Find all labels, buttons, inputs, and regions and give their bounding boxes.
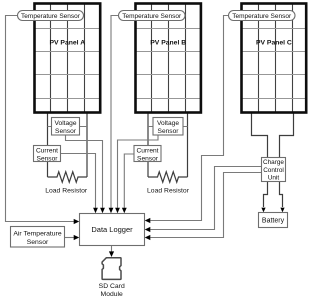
svg-text:Load Resistor: Load Resistor (147, 188, 190, 195)
svg-text:Control: Control (263, 167, 284, 174)
svg-text:Current: Current (36, 148, 58, 155)
svg-text:PV Panel C: PV Panel C (256, 39, 292, 46)
svg-text:Sensor: Sensor (158, 128, 180, 135)
svg-text:Data Logger: Data Logger (91, 225, 133, 234)
svg-text:Air Temperature: Air Temperature (13, 231, 61, 238)
svg-text:Battery: Battery (262, 218, 285, 225)
svg-text:Current: Current (137, 148, 159, 155)
svg-text:Sensor: Sensor (27, 239, 49, 246)
svg-text:SD Card: SD Card (99, 283, 125, 290)
svg-text:Temperature Sensor: Temperature Sensor (122, 13, 182, 20)
svg-text:Charge: Charge (263, 159, 284, 166)
svg-text:Voltage: Voltage (55, 120, 77, 127)
svg-text:Module: Module (101, 291, 124, 298)
svg-text:Temperature Sensor: Temperature Sensor (21, 13, 81, 20)
svg-text:Sensor: Sensor (55, 128, 77, 135)
svg-text:PV Panel B: PV Panel B (150, 39, 186, 46)
svg-text:Temperature Sensor: Temperature Sensor (232, 13, 292, 20)
svg-text:Sensor: Sensor (137, 155, 159, 162)
svg-text:Load Resistor: Load Resistor (45, 188, 88, 195)
svg-text:Sensor: Sensor (37, 155, 59, 162)
svg-text:Voltage: Voltage (157, 120, 179, 127)
svg-text:PV Panel A: PV Panel A (49, 39, 85, 46)
svg-text:Unit: Unit (268, 174, 280, 181)
